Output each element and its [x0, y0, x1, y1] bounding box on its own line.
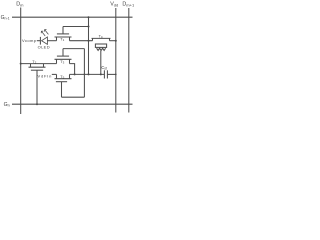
data line Dm (vertical bus, left): [20, 8, 22, 115]
svg-text:T2: T2: [32, 60, 36, 65]
label T1: [60, 37, 64, 42]
junction T4-Vdd: [115, 40, 117, 42]
transistor T3 (gate above, diode-connected): [56, 59, 58, 63]
svg-text:T5: T5: [60, 75, 64, 80]
svg-text:Cst: Cst: [101, 65, 107, 71]
data line Dm+1 (vertical bus, right): [128, 8, 130, 113]
gate line Gn-1 (horizontal bus, top): [12, 16, 133, 18]
capacitor Cst: [103, 70, 105, 78]
wire OLED cathode to T1: [47, 40, 56, 42]
label Gn: [4, 102, 10, 108]
label VdFIn: [38, 74, 52, 79]
junction Dm-T2: [20, 63, 22, 65]
svg-text:T4: T4: [99, 34, 103, 39]
node line N (vertical x=88.5): [88, 17, 90, 74]
wire Dm to T2/T3 row: [21, 63, 57, 65]
label T4: [99, 34, 103, 39]
svg-text:Gn-1: Gn-1: [1, 15, 10, 21]
wire T3 drain down to node row: [70, 64, 75, 75]
junction T3 drain-node row: [74, 73, 76, 75]
wire T4 drain to Vdd: [110, 40, 116, 42]
junction node-T1 drain wire: [88, 40, 90, 42]
svg-text:Gn: Gn: [4, 102, 10, 108]
wire VdFIn to T5: [52, 73, 57, 75]
node row wire: [70, 73, 105, 75]
transistor T1 (gate above): [56, 37, 58, 41]
label Dm+1: [122, 2, 135, 8]
junction T2 gate-Gn: [36, 103, 38, 105]
junction T4 gate-node row: [100, 73, 102, 75]
label Gn-1: [1, 15, 10, 21]
OLED diode D1: [39, 37, 41, 45]
label Cst: [101, 65, 107, 71]
wire T1 drain to T4: [70, 40, 93, 42]
svg-text:Dm+1: Dm+1: [122, 2, 135, 8]
transistor T4 (drive, gate below with box and zigzag): [92, 38, 94, 40]
junction node-Gn-1: [88, 16, 90, 18]
label OLED: [38, 45, 50, 50]
svg-text:T3: T3: [60, 60, 64, 65]
transistor T5 (gate below, diode-connected): [56, 74, 58, 78]
Vdd power line (vertical bus): [115, 8, 117, 113]
label Vdd: [110, 2, 118, 8]
junction node line-node row: [88, 73, 90, 75]
svg-text:Vdd: Vdd: [110, 2, 118, 8]
junction Cst-Vdd: [115, 74, 117, 76]
label T3: [60, 60, 64, 65]
svg-text:T1: T1: [60, 37, 64, 42]
wire T4 gate lead down to node: [100, 51, 102, 75]
label Vcomp: [22, 38, 37, 43]
label Dm: [16, 2, 24, 8]
svg-text:OLED: OLED: [38, 45, 50, 50]
gate line Gn (horizontal bus, bottom): [12, 103, 133, 105]
wire T1 gate to node line: [63, 26, 89, 28]
wire T5 gate U-route to diode net: [62, 96, 85, 98]
label T5: [60, 75, 64, 80]
wire T3 gate to diode net: [63, 48, 84, 50]
OLED emission arrows: [41, 31, 45, 36]
diode net vertical (gates of T3/T5 to node row): [83, 49, 85, 98]
wire Vcomp to OLED anode: [37, 40, 41, 42]
junction node-T1 gate wire: [88, 26, 90, 28]
svg-text:VdFIn: VdFIn: [38, 74, 52, 79]
transistor T2 (gate below): [30, 64, 32, 68]
label T2: [32, 60, 36, 65]
svg-text:Dm: Dm: [16, 2, 24, 8]
junction diode net-node row: [84, 74, 86, 76]
svg-text:Vcomp: Vcomp: [22, 38, 37, 43]
